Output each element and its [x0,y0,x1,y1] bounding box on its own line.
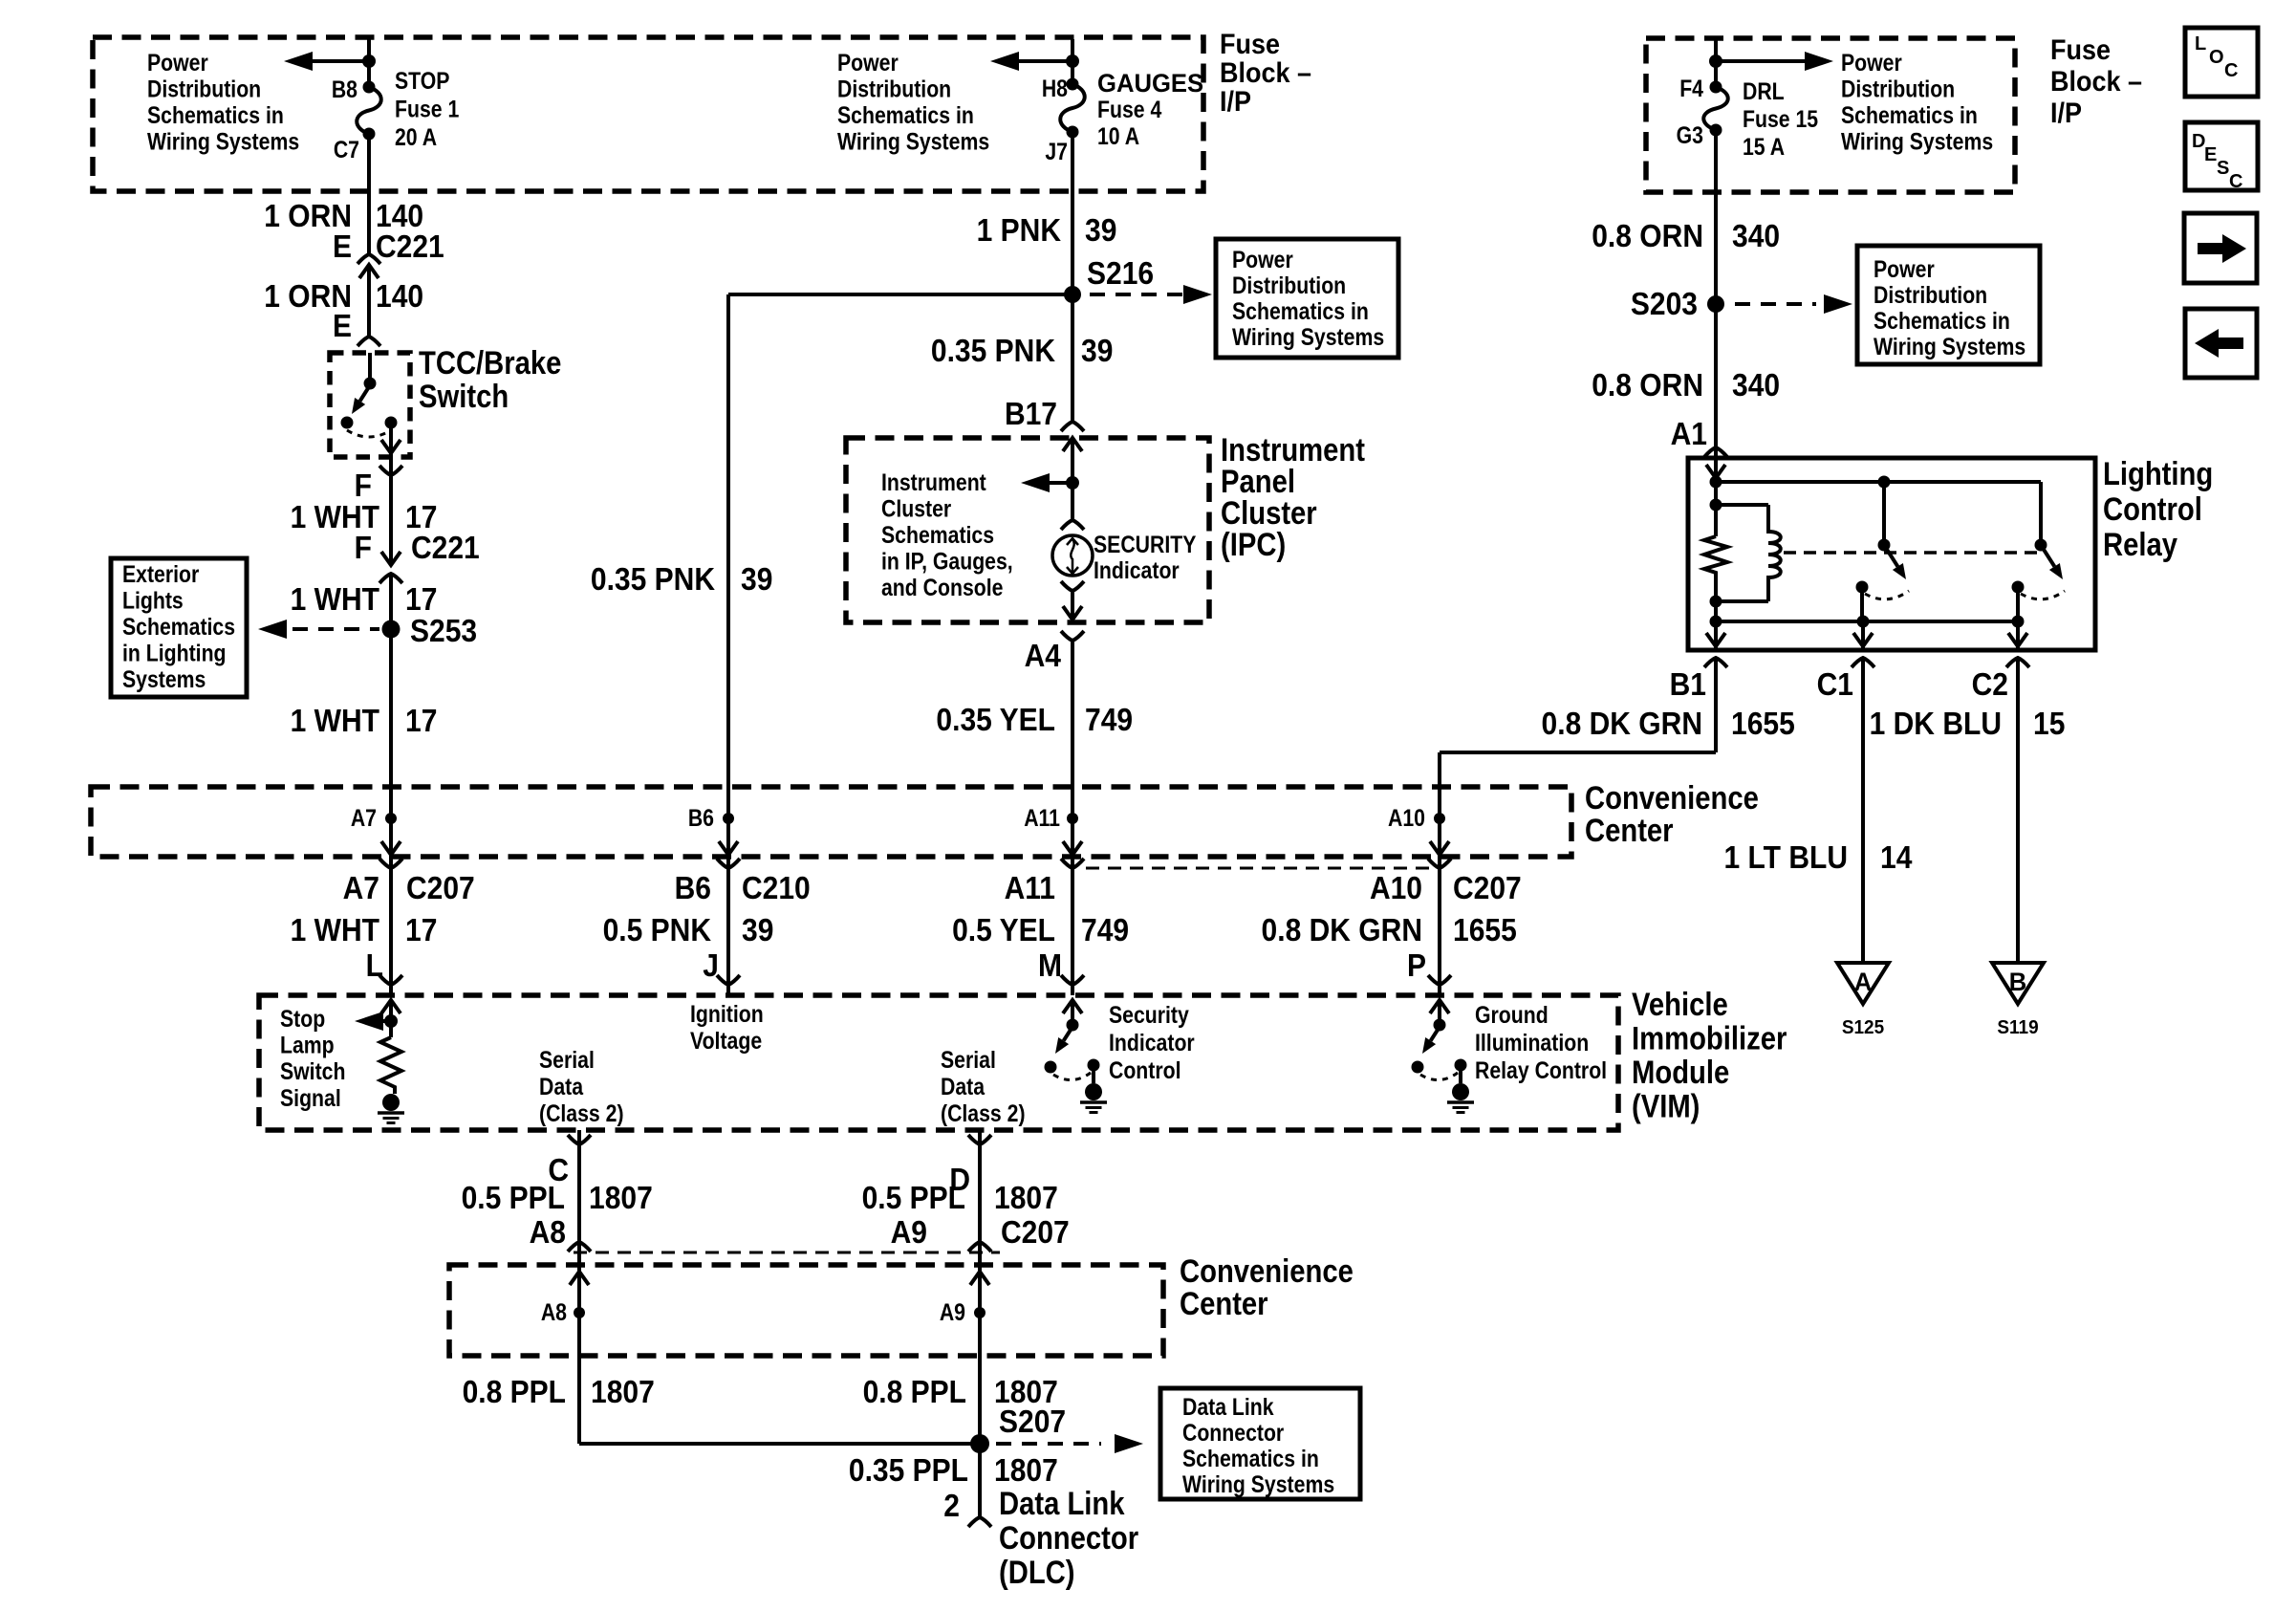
svg-text:S216: S216 [1087,255,1154,292]
reference box: power distribution schematics (right) [1857,246,2040,364]
svg-text:1655: 1655 [1453,912,1517,948]
svg-text:0.35 PNK: 0.35 PNK [931,333,1055,369]
connector above SECURITY indicator [1061,520,1084,530]
relay actuation dashed link [1784,551,2037,555]
dashed reference arrow from S216 [1090,293,1185,296]
legend icon arrow right [2184,213,2257,283]
svg-text:S253: S253 [410,613,477,649]
relay pin C2 [2006,658,2029,667]
svg-text:Convenience: Convenience [1180,1252,1354,1290]
svg-text:Data: Data [539,1073,584,1099]
svg-text:SECURITY: SECURITY [1094,531,1197,557]
svg-text:J: J [703,947,719,984]
connector C207 cavity A10 [1428,859,1451,868]
VIM security indicator control switch [1071,1000,1074,1025]
junction node at F4 feed [1709,54,1722,68]
SECURITY indicator lamp [1052,535,1093,576]
svg-text:Lamp: Lamp [280,1032,335,1058]
svg-text:Instrument: Instrument [881,468,986,495]
wire 0.8 ORN 340 (S203 to relay pin A1) [1714,304,1718,458]
svg-text:39: 39 [741,561,772,598]
relay coil loop [1716,503,1768,507]
wire 1 LT BLU 14 (C1 to ground S125) [1861,658,1865,962]
svg-text:39: 39 [1085,212,1116,249]
svg-text:Fuse: Fuse [1220,29,1280,61]
svg-text:(VIM): (VIM) [1632,1087,1700,1124]
svg-text:Wiring Systems: Wiring Systems [147,128,299,155]
svg-text:Distribution: Distribution [837,76,951,102]
svg-text:A1: A1 [1671,416,1707,452]
in-line connector dashed boundary (upper) [1086,867,1430,870]
svg-text:I/P: I/P [1220,86,1251,119]
wire 0.8 DK GRN 1655 (B1 to A10) [1714,658,1718,752]
wire arrow to power distribution (right) [1716,59,1805,63]
svg-text:(Class 2): (Class 2) [539,1099,624,1126]
svg-text:Data: Data [941,1073,986,1099]
svg-text:Indicator: Indicator [1109,1029,1195,1056]
fuse F15 DRL 15A [1703,87,1728,130]
svg-text:Convenience: Convenience [1585,779,1759,816]
svg-text:A: A [1854,967,1873,996]
svg-text:Distribution: Distribution [1232,272,1346,298]
svg-text:Security: Security [1109,1001,1189,1028]
instrument panel cluster dashed outline [846,438,1209,622]
svg-text:340: 340 [1732,218,1780,254]
svg-text:STOP: STOP [395,67,449,94]
svg-text:and Console: and Console [881,574,1004,600]
svg-text:Serial: Serial [539,1046,595,1073]
svg-text:E: E [333,308,352,344]
svg-text:17: 17 [405,703,437,739]
svg-text:C207: C207 [1001,1214,1070,1251]
svg-text:1655: 1655 [1731,706,1795,742]
svg-text:A7: A7 [351,804,377,831]
svg-text:S125: S125 [1842,1017,1885,1039]
svg-text:1 WHT: 1 WHT [291,703,379,739]
svg-text:0.5 PNK: 0.5 PNK [603,912,712,948]
VIM internal ground (security) [1085,1083,1102,1100]
svg-text:Connector: Connector [999,1519,1138,1557]
svg-text:Fuse 15: Fuse 15 [1743,105,1818,132]
svg-text:Schematics: Schematics [881,521,994,548]
svg-text:1 WHT: 1 WHT [291,912,379,948]
ground reference triangle A [1837,963,1889,1004]
svg-text:Signal: Signal [280,1084,341,1111]
wire 1 ORN 140 (C221 to TCC/Brake switch) [367,265,371,337]
svg-text:G3: G3 [1677,121,1703,148]
svg-text:TCC/Brake: TCC/Brake [419,344,561,381]
svg-text:Voltage: Voltage [690,1027,762,1054]
svg-text:GAUGES: GAUGES [1097,68,1203,98]
svg-text:Schematics in: Schematics in [1232,297,1369,324]
svg-text:in IP, Gauges,: in IP, Gauges, [881,548,1013,575]
svg-text:O: O [2209,47,2224,68]
svg-text:1807: 1807 [589,1180,653,1216]
svg-text:1807: 1807 [591,1374,655,1410]
svg-text:in Lighting: in Lighting [122,640,227,666]
relay switch 2 (C2) [2039,482,2043,543]
svg-text:Control: Control [1109,1056,1181,1083]
IPC output pin A4 [1061,631,1084,641]
svg-text:0.8 DK GRN: 0.8 DK GRN [1262,912,1422,948]
svg-text:Illumination: Illumination [1475,1029,1589,1056]
legend icon LOC [2185,28,2258,97]
svg-text:Schematics in: Schematics in [1874,307,2010,334]
svg-text:0.35 YEL: 0.35 YEL [936,702,1055,738]
fuse F1 STOP 20A [357,87,381,134]
legend icon DESC [2185,122,2258,190]
connector C210 cavity B6 [717,859,740,868]
svg-text:39: 39 [1081,333,1113,369]
svg-text:F: F [355,530,372,566]
svg-text:Distribution: Distribution [1874,281,1987,308]
svg-text:Distribution: Distribution [1841,76,1955,102]
wire 1 PNK 39 (fuse J7 to S216) [1071,132,1074,294]
TCC switch common feed [368,353,372,383]
svg-text:A11: A11 [1024,804,1060,831]
svg-text:Module: Module [1632,1054,1729,1091]
junction node at B8 feed [362,54,376,68]
svg-text:J7: J7 [1045,138,1068,164]
node A11 in convenience center [1067,813,1078,824]
svg-text:H8: H8 [1042,75,1068,101]
wire 0.35 PNK 39 (S216 branch to convenience center) [726,294,730,857]
svg-text:A10: A10 [1370,870,1422,906]
splice S253 [382,620,401,639]
TCC switch contacts [341,417,354,429]
connector at TCC/Brake switch [357,337,380,346]
svg-text:Lighting: Lighting [2103,455,2213,492]
wire 0.8 PPL 1807 (A8 to S207) [577,1356,581,1444]
wire arrow to power distribution (middle) [1019,59,1072,63]
convenience center dashed outline (lower) [449,1265,1163,1356]
svg-text:Indicator: Indicator [1094,556,1180,583]
svg-text:C1: C1 [1817,666,1853,703]
svg-text:A4: A4 [1025,638,1062,674]
svg-text:C210: C210 [742,870,811,906]
svg-text:0.35 PNK: 0.35 PNK [591,561,715,598]
svg-text:0.8 DK GRN: 0.8 DK GRN [1542,706,1702,742]
relay coil/resistor bottom junction [1710,596,1722,608]
svg-text:Power: Power [1841,49,1902,76]
svg-text:Center: Center [1585,812,1674,849]
svg-text:Distribution: Distribution [147,76,261,102]
svg-text:Power: Power [1232,246,1293,272]
svg-text:Schematics in: Schematics in [1182,1445,1319,1471]
svg-text:Lights: Lights [122,587,184,614]
svg-text:S119: S119 [1997,1017,2038,1039]
splice S207 [970,1434,989,1453]
svg-text:S207: S207 [999,1404,1066,1440]
svg-text:0.5 PPL: 0.5 PPL [862,1180,965,1216]
svg-text:1 LT BLU: 1 LT BLU [1724,839,1848,876]
fuse F4 GAUGES 10A [1060,84,1085,132]
svg-text:749: 749 [1085,702,1133,738]
svg-text:Fuse: Fuse [2050,34,2111,67]
svg-text:Systems: Systems [122,665,206,692]
svg-text:0.8 PPL: 0.8 PPL [863,1374,966,1410]
splice S216 [1064,286,1081,303]
wire 1 DK BLU 15 (C2 to ground S119) [2016,658,2020,962]
svg-text:Center: Center [1180,1285,1268,1322]
svg-text:17: 17 [405,912,437,948]
dashed reference arrow from S207 [996,1442,1101,1446]
VIM pin C [577,1130,581,1262]
relay pin B1 [1704,658,1727,667]
svg-text:Schematics: Schematics [122,613,235,640]
relay switch 1 (C1) [1882,482,1886,543]
wire: feed above GAUGES fuse [1071,39,1074,84]
VIM internal ground (stop lamp) [382,1094,400,1111]
svg-text:(Class 2): (Class 2) [941,1099,1026,1126]
svg-text:140: 140 [376,278,423,315]
svg-text:0.5 YEL: 0.5 YEL [952,912,1055,948]
relay resistor element [1704,536,1727,601]
svg-text:Wiring Systems: Wiring Systems [837,128,989,155]
svg-text:M: M [1038,947,1062,984]
wire 1 WHT 17 (to C221) [389,457,393,565]
svg-text:Fuse 1: Fuse 1 [395,96,459,122]
svg-text:A11: A11 [1005,870,1055,906]
VIM internal resistor [380,1037,401,1094]
svg-text:2: 2 [943,1488,960,1524]
svg-text:Wiring Systems: Wiring Systems [1182,1470,1334,1497]
svg-text:Ground: Ground [1475,1001,1549,1028]
svg-text:Wiring Systems: Wiring Systems [1841,128,1993,155]
svg-text:Block –: Block – [2050,66,2142,98]
svg-text:0.35 PPL: 0.35 PPL [849,1452,968,1489]
svg-text:Switch: Switch [419,378,509,415]
in-line connector dashed boundary (lower) [574,1252,1000,1254]
svg-text:15 A: 15 A [1743,133,1785,160]
splice S203 [1707,295,1724,313]
svg-text:B: B [2009,967,2027,996]
svg-text:A9: A9 [891,1214,927,1251]
svg-text:340: 340 [1732,367,1780,403]
reference box: power distribution schematics (middle) [1216,239,1398,358]
svg-text:Power: Power [837,49,899,76]
svg-text:20 A: 20 A [395,123,437,150]
svg-text:C221: C221 [376,229,444,265]
node A9 in convenience center [978,1254,982,1356]
reference box: data link connector schematics [1160,1388,1360,1499]
svg-text:Control: Control [2103,490,2202,528]
wire 0.8 PPL 1807 (A9 to S207) [978,1356,982,1517]
TCC switch throw arc [347,430,391,437]
wire: feed above STOP fuse [367,39,371,87]
svg-text:Cluster: Cluster [881,495,951,522]
node A7 in convenience center [385,813,397,824]
IPC internal junction [1066,476,1079,490]
dashed reference arrow from S203 [1735,302,1816,306]
junction node at H8 feed [1066,54,1079,68]
svg-text:Power: Power [147,49,208,76]
svg-text:Relay: Relay [2103,526,2177,563]
svg-text:Switch: Switch [280,1058,345,1085]
svg-text:DRL: DRL [1743,77,1785,104]
svg-text:F4: F4 [1679,75,1703,101]
svg-text:I/P: I/P [2050,98,2082,130]
connector C207 cavity A7 [379,859,402,868]
svg-text:(DLC): (DLC) [999,1554,1075,1591]
relay top bus to switches [1716,480,2041,484]
fuse block I/P dashed outline (left) [93,37,1203,191]
TCC switch blade [360,385,370,401]
relay bottom bus [1716,620,2018,623]
svg-text:Schematics in: Schematics in [147,101,284,128]
svg-text:Relay Control: Relay Control [1475,1056,1607,1083]
svg-text:Data Link: Data Link [999,1485,1125,1522]
svg-text:Power: Power [1874,255,1935,282]
VIM internal ground (illumination) [1452,1083,1469,1100]
svg-text:A8: A8 [541,1298,567,1325]
svg-text:749: 749 [1081,912,1129,948]
svg-text:Schematics in: Schematics in [837,101,974,128]
svg-text:Connector: Connector [1182,1419,1284,1446]
svg-text:Wiring Systems: Wiring Systems [1232,323,1384,350]
svg-text:Immobilizer: Immobilizer [1632,1019,1787,1056]
svg-text:E: E [2204,144,2217,165]
VIM pin D [978,1130,982,1262]
wire arrow to power distribution (left) [313,59,369,63]
svg-text:0.8 ORN: 0.8 ORN [1592,367,1703,403]
svg-text:B6: B6 [675,870,711,906]
wire below SECURITY indicator [1061,581,1084,591]
fuse block I/P dashed outline (right) [1646,38,2015,192]
svg-text:1 WHT: 1 WHT [291,581,379,618]
svg-text:Vehicle: Vehicle [1632,986,1728,1023]
svg-text:(IPC): (IPC) [1221,526,1286,563]
svg-text:Fuse 4: Fuse 4 [1097,96,1161,122]
VIM ground illumination relay control switch [1438,1000,1441,1025]
svg-text:C221: C221 [411,530,480,566]
wire: feed above DRL fuse [1714,40,1718,87]
svg-text:1 DK BLU: 1 DK BLU [1870,706,2002,742]
svg-text:B6: B6 [688,804,714,831]
ground reference triangle B [1992,963,2044,1004]
svg-text:A10: A10 [1388,804,1425,831]
svg-text:Block –: Block – [1220,57,1311,90]
TCC switch output [389,425,393,457]
vehicle immobilizer module dashed outline [259,995,1618,1130]
svg-text:0.8 ORN: 0.8 ORN [1592,218,1703,254]
legend icon arrow left [2185,309,2257,378]
wire branch from S216 to serial rail [728,293,1072,296]
svg-text:1807: 1807 [994,1452,1058,1489]
svg-text:A9: A9 [940,1298,965,1325]
svg-text:E: E [333,229,352,265]
svg-text:Ignition: Ignition [690,1000,764,1027]
relay coil feed [1714,458,1718,536]
wire 0.35 PNK 39 (S216 to IPC pin B17) [1071,294,1074,422]
svg-text:B8: B8 [332,76,357,102]
svg-text:P: P [1407,947,1426,984]
wire 1 ORN 140 (fuse C7 to C221) [367,134,371,254]
svg-text:C2: C2 [1972,666,2008,703]
svg-text:Exterior: Exterior [122,560,199,587]
IPC internal arrow to cluster schematics [1040,481,1072,485]
svg-text:A8: A8 [530,1214,566,1251]
svg-text:Stop: Stop [280,1005,325,1032]
svg-text:1 PNK: 1 PNK [977,212,1062,249]
svg-text:Schematics in: Schematics in [1841,101,1978,128]
wire 0.35 YEL 749 (IPC A4 to convenience center) [1071,641,1074,857]
convenience center dashed outline (upper) [91,787,1571,857]
svg-text:A7: A7 [343,870,379,906]
connector pin F below TCC switch [379,466,402,475]
svg-text:C: C [2229,171,2242,192]
svg-text:39: 39 [742,912,773,948]
relay outputs [1714,621,1718,650]
svg-text:C: C [2224,60,2238,81]
svg-text:L: L [2195,33,2206,54]
node A10 in convenience center [1434,813,1445,824]
relay pin C1 [1852,658,1874,667]
svg-text:B17: B17 [1005,396,1057,432]
svg-text:0.5 PPL: 0.5 PPL [462,1180,565,1216]
svg-text:B1: B1 [1670,666,1706,703]
svg-text:C7: C7 [334,136,359,163]
VIM stop lamp switch signal input [389,1000,393,1037]
svg-text:14: 14 [1880,839,1913,876]
wire 1 WHT 17 (C221 to S253) [389,574,393,629]
svg-text:Wiring Systems: Wiring Systems [1874,333,2025,359]
svg-text:0.8 PPL: 0.8 PPL [463,1374,566,1410]
svg-text:Data Link: Data Link [1182,1393,1274,1420]
svg-text:1807: 1807 [994,1180,1058,1216]
lighting control relay outline [1688,458,2095,650]
svg-text:Serial: Serial [941,1046,996,1073]
svg-text:S203: S203 [1631,286,1698,322]
svg-text:10 A: 10 A [1097,122,1139,149]
reference box: exterior lights schematics [111,558,247,697]
node A8 in convenience center [577,1254,581,1356]
wire 1 WHT 17 (S253 to convenience center) [389,629,393,857]
dashed reference arrow to exterior lights schematics [292,627,379,631]
svg-text:C207: C207 [406,870,475,906]
node B6 in convenience center [723,813,734,824]
svg-text:15: 15 [2033,706,2065,742]
TCC/Brake switch dashed outline [330,353,410,457]
svg-text:S: S [2217,158,2229,179]
svg-text:C207: C207 [1453,870,1522,906]
wire 0.8 ORN 340 (fuse G3 to S203) [1714,130,1718,304]
connector cavity A11 [1061,859,1084,868]
